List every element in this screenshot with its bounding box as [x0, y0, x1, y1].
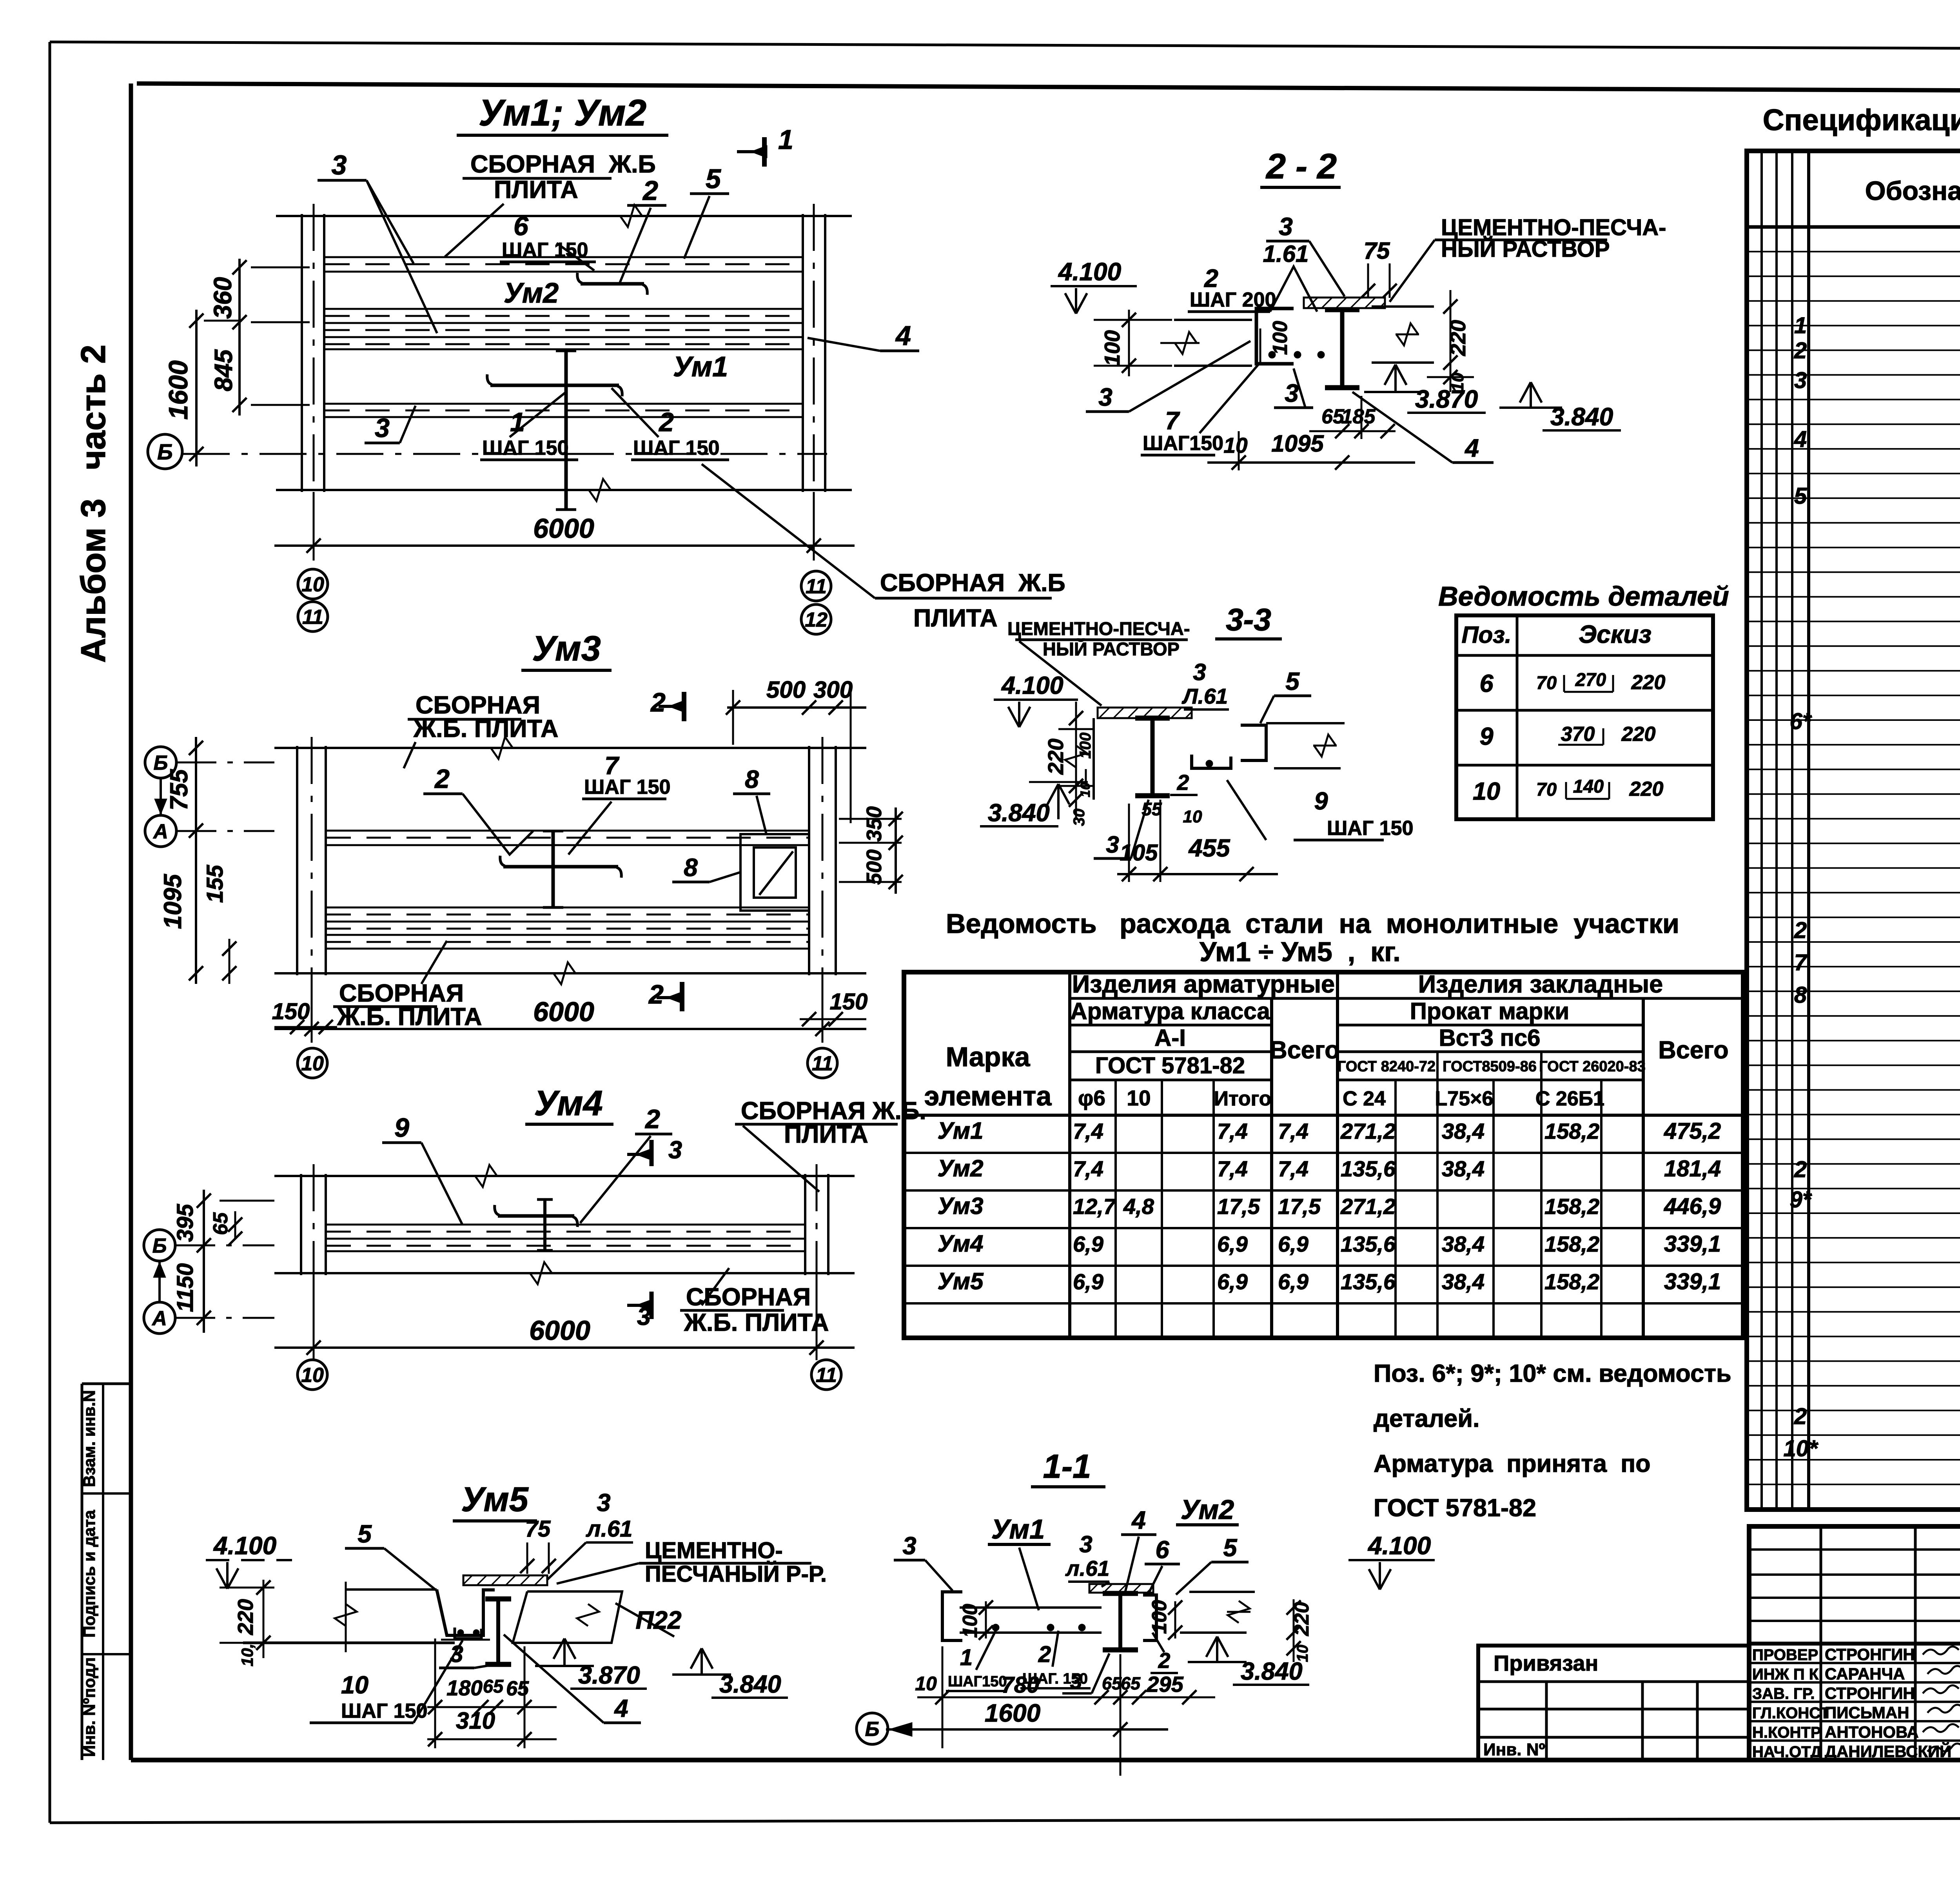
svg-text:6,9: 6,9 — [1217, 1232, 1248, 1256]
Um4 dims 395 65 1150 — [203, 1190, 205, 1333]
svg-text:220: 220 — [1621, 723, 1656, 746]
svg-text:Б: Б — [865, 1718, 880, 1741]
svg-text:4: 4 — [1794, 426, 1807, 452]
title block upper small rows — [1749, 1548, 1960, 1551]
svg-text:3: 3 — [1794, 368, 1807, 393]
svg-text:65: 65 — [506, 1677, 529, 1700]
svg-text:1150: 1150 — [172, 1263, 198, 1312]
svg-text:9: 9 — [1314, 788, 1328, 815]
svg-text:755: 755 — [165, 769, 193, 810]
svg-text:10*: 10* — [1783, 1436, 1818, 1461]
steel table verticals — [1068, 972, 1071, 1338]
svg-text:8: 8 — [1794, 982, 1807, 1008]
svg-text:4.100: 4.100 — [1367, 1531, 1431, 1560]
title block verticals — [1820, 1526, 1822, 1760]
Um4 dim 6000 — [313, 1275, 315, 1360]
Um1-Um2 left wall — [301, 214, 303, 492]
svg-text:350: 350 — [862, 806, 886, 842]
svg-text:Арматура класса: Арматура класса — [1070, 998, 1270, 1024]
svg-text:7,4: 7,4 — [1217, 1156, 1248, 1181]
svg-text:Ведомость деталей: Ведомость деталей — [1438, 581, 1729, 611]
svg-text:4: 4 — [895, 320, 911, 351]
Um5 elevation 3.870 — [563, 1639, 566, 1666]
svg-text:3.870: 3.870 — [1415, 385, 1478, 413]
1-1 dim 100 left — [985, 1601, 987, 1639]
svg-text:11: 11 — [812, 1052, 833, 1075]
3-3 rebar parts small — [1192, 755, 1231, 768]
svg-text:17,5: 17,5 — [1278, 1194, 1321, 1219]
svg-text:2 - 2: 2 - 2 — [1265, 147, 1337, 186]
Um1-Um2 rebar band lower — [325, 403, 802, 405]
main drawing frame — [137, 83, 1960, 93]
svg-text:7,4: 7,4 — [1278, 1156, 1308, 1181]
steel table sub verticals — [1114, 1080, 1117, 1338]
svg-text:150: 150 — [830, 989, 868, 1014]
svg-text:Ум4: Ум4 — [534, 1084, 603, 1123]
svg-text:ШАГ150: ШАГ150 — [1143, 432, 1223, 455]
grid axis B line — [183, 453, 827, 455]
Um4 grid circle 10 — [298, 1360, 327, 1390]
svg-text:НАЧ.ОТД: НАЧ.ОТД — [1752, 1744, 1822, 1761]
svg-text:3.840: 3.840 — [1550, 403, 1613, 431]
svg-text:38,4: 38,4 — [1442, 1232, 1485, 1256]
spec table narrow columns — [1760, 151, 1763, 1510]
svg-text:9*: 9* — [1790, 1187, 1812, 1212]
Um3 grid B circle — [145, 747, 176, 778]
svg-text:158,2: 158,2 — [1544, 1194, 1599, 1219]
spec table header — [1747, 225, 1960, 229]
svg-text:Ум4: Ум4 — [938, 1230, 984, 1257]
svg-text:181,4: 181,4 — [1664, 1156, 1721, 1181]
svg-text:5: 5 — [1285, 667, 1300, 695]
svg-text:500: 500 — [766, 677, 806, 703]
svg-text:ПИСЬМАН: ПИСЬМАН — [1825, 1704, 1909, 1722]
2-2 I-beam — [1340, 310, 1345, 388]
Um3 rebar band lower — [327, 907, 808, 909]
grid axis B circle left — [148, 434, 182, 469]
svg-text:Б: Б — [152, 1235, 167, 1257]
svg-text:30: 30 — [1071, 809, 1088, 826]
svg-text:ГОСТ 5781-82: ГОСТ 5781-82 — [1374, 1494, 1536, 1522]
svg-text:8: 8 — [684, 853, 698, 882]
svg-text:10: 10 — [301, 1364, 324, 1387]
svg-text:деталей.: деталей. — [1374, 1405, 1480, 1432]
svg-text:СБОРНАЯ: СБОРНАЯ — [686, 1283, 811, 1311]
svg-text:Ум1 ÷ Ум5 , кг.: Ум1 ÷ Ум5 , кг. — [1200, 936, 1401, 967]
svg-text:4,8: 4,8 — [1123, 1194, 1154, 1219]
svg-text:Ум3: Ум3 — [532, 629, 601, 668]
svg-text:70: 70 — [1536, 779, 1557, 800]
Um4 right wall — [804, 1174, 806, 1275]
svg-text:6000: 6000 — [533, 996, 594, 1027]
svg-text:158,2: 158,2 — [1544, 1269, 1599, 1294]
Um4 grid B circle — [144, 1230, 175, 1261]
sheet outer border — [50, 42, 1960, 50]
svg-text:ИНЖ П К: ИНЖ П К — [1752, 1666, 1819, 1683]
2-2 dim 220 right — [1450, 290, 1452, 392]
section mark 1 top — [762, 137, 767, 167]
dim 1600 vertical line — [195, 310, 198, 466]
svg-text:10: 10 — [1078, 782, 1093, 797]
svg-text:10: 10 — [1183, 807, 1202, 826]
Um1-Um2 rebar band middle — [325, 308, 802, 310]
svg-text:ГОСТ 26020-83: ГОСТ 26020-83 — [1539, 1058, 1645, 1075]
svg-text:3.870: 3.870 — [578, 1662, 640, 1689]
Um5 slab break mark — [345, 1582, 347, 1652]
svg-text:Альбом 3 часть 2: Альбом 3 часть 2 — [74, 345, 113, 663]
svg-text:А: А — [152, 820, 168, 843]
svg-text:1: 1 — [510, 407, 525, 437]
svg-text:П22: П22 — [635, 1606, 681, 1634]
svg-text:Ум5: Ум5 — [461, 1480, 529, 1519]
3-3 right channel — [1241, 725, 1266, 760]
svg-text:8: 8 — [745, 765, 759, 793]
svg-text:2: 2 — [644, 1104, 660, 1134]
svg-text:220: 220 — [1631, 671, 1666, 694]
svg-text:ШАГ 150: ШАГ 150 — [1327, 817, 1414, 840]
3-3 elevation 3.840 note mark — [1085, 769, 1087, 782]
Um4 rebar vertical bar — [543, 1199, 546, 1250]
svg-text:Всего: Всего — [1269, 1036, 1339, 1064]
svg-text:4: 4 — [613, 1695, 628, 1722]
Um5 elevation 3.840 — [701, 1648, 703, 1675]
1-1 dim 220 right — [1293, 1599, 1295, 1662]
1-1 hatch strip — [1089, 1584, 1153, 1593]
svg-text:л.61: л.61 — [586, 1516, 633, 1542]
svg-text:1600: 1600 — [985, 1699, 1040, 1727]
svg-text:12,7: 12,7 — [1073, 1194, 1117, 1219]
svg-text:140: 140 — [1573, 776, 1604, 797]
svg-text:9: 9 — [394, 1113, 409, 1143]
Um1-Um2 slab bottom edge — [276, 489, 852, 491]
svg-text:2: 2 — [1038, 1642, 1051, 1667]
Um3 right wall — [808, 746, 810, 975]
2-2 dim 100 left — [1128, 310, 1130, 376]
svg-text:Н.КОНТР: Н.КОНТР — [1752, 1724, 1821, 1741]
svg-text:2: 2 — [1794, 1157, 1807, 1182]
svg-text:ПЛИТА: ПЛИТА — [494, 176, 578, 203]
svg-text:ШАГ 150: ШАГ 150 — [482, 437, 569, 459]
left margin stamp column boxes — [82, 1383, 131, 1385]
svg-text:10: 10 — [341, 1671, 368, 1699]
svg-text:3: 3 — [902, 1532, 916, 1560]
svg-text:ГОСТ 8240-72: ГОСТ 8240-72 — [1338, 1058, 1436, 1075]
svg-text:Марка: Марка — [946, 1042, 1031, 1072]
svg-text:Подпись и дата: Подпись и дата — [80, 1510, 98, 1638]
svg-text:1: 1 — [778, 124, 793, 155]
svg-text:ЦЕМЕНТНО-: ЦЕМЕНТНО- — [645, 1538, 783, 1563]
svg-text:Поз. 6*; 9*; 10* см. ведомость: Поз. 6*; 9*; 10* см. ведомость — [1374, 1360, 1731, 1387]
Um3 opening right — [740, 834, 809, 911]
svg-text:2: 2 — [1177, 770, 1189, 795]
grid circle 10 left — [298, 569, 328, 599]
svg-text:6,9: 6,9 — [1073, 1232, 1103, 1256]
svg-text:Вст3 пс6: Вст3 пс6 — [1439, 1025, 1540, 1051]
svg-text:3: 3 — [1079, 1531, 1092, 1557]
svg-text:65: 65 — [483, 1676, 504, 1697]
svg-text:180: 180 — [446, 1676, 483, 1700]
svg-text:Итого: Итого — [1214, 1087, 1272, 1110]
svg-text:7,4: 7,4 — [1278, 1119, 1308, 1143]
svg-text:С 24: С 24 — [1343, 1087, 1386, 1110]
title block outer — [1749, 1526, 1960, 1760]
svg-text:3: 3 — [1106, 831, 1119, 858]
svg-text:11: 11 — [302, 606, 323, 629]
Um5 channel small — [455, 1628, 481, 1639]
svg-text:6000: 6000 — [533, 513, 594, 544]
svg-text:70: 70 — [1536, 672, 1557, 693]
svg-text:395: 395 — [172, 1204, 198, 1242]
svg-text:ШАГ150: ШАГ150 — [948, 1673, 1007, 1690]
svg-text:6,9: 6,9 — [1073, 1269, 1103, 1294]
svg-text:845: 845 — [209, 349, 238, 391]
svg-text:10: 10 — [1223, 433, 1248, 457]
2-2 cement strip hatched — [1304, 298, 1385, 308]
svg-text:7,4: 7,4 — [1217, 1119, 1248, 1143]
svg-text:Ум5: Ум5 — [938, 1268, 984, 1294]
svg-text:Б: Б — [157, 439, 173, 464]
svg-text:17,5: 17,5 — [1217, 1194, 1260, 1219]
svg-text:65: 65 — [1102, 1673, 1122, 1693]
svg-text:5: 5 — [706, 163, 721, 194]
svg-text:ПРОВЕР: ПРОВЕР — [1752, 1646, 1818, 1664]
svg-text:339,1: 339,1 — [1664, 1269, 1721, 1294]
svg-text:Поз.: Поз. — [1461, 622, 1511, 648]
svg-text:ГОСТ 5781-82: ГОСТ 5781-82 — [1095, 1053, 1245, 1078]
svg-text:Ум1: Ум1 — [673, 351, 728, 383]
svg-text:7: 7 — [1165, 406, 1180, 435]
svg-text:370: 370 — [1561, 723, 1595, 746]
svg-text:155: 155 — [202, 865, 228, 903]
svg-text:4.100: 4.100 — [213, 1531, 276, 1560]
svg-text:4.100: 4.100 — [1001, 672, 1063, 699]
3-3 I-beam — [1151, 718, 1155, 796]
svg-text:САРАНЧА: САРАНЧА — [1825, 1665, 1905, 1683]
svg-text:135,6: 135,6 — [1341, 1156, 1396, 1181]
svg-text:1: 1 — [960, 1645, 973, 1670]
Um5 trough — [437, 1590, 495, 1635]
svg-text:Ум2: Ум2 — [1181, 1494, 1234, 1525]
svg-text:ЗАВ. ГР.: ЗАВ. ГР. — [1752, 1685, 1815, 1702]
svg-text:100: 100 — [1100, 330, 1124, 366]
svg-text:475,2: 475,2 — [1664, 1118, 1721, 1144]
svg-text:220: 220 — [1446, 320, 1470, 356]
svg-text:2: 2 — [642, 175, 658, 206]
svg-text:310: 310 — [456, 1707, 495, 1734]
svg-text:135,6: 135,6 — [1341, 1232, 1396, 1256]
svg-text:Ум3: Ум3 — [938, 1193, 984, 1219]
svg-text:СТРОНГИН: СТРОНГИН — [1825, 1645, 1915, 1664]
svg-text:6: 6 — [514, 211, 529, 241]
svg-text:455: 455 — [1188, 835, 1230, 862]
vedomost detaley table — [1456, 615, 1713, 819]
rebar hook bar top — [581, 282, 644, 286]
svg-text:3: 3 — [332, 150, 347, 180]
svg-text:Ведомость расхода стали на: Ведомость расхода стали на монолитные уч… — [946, 908, 1679, 939]
svg-text:Ум2: Ум2 — [938, 1155, 984, 1181]
svg-text:2: 2 — [1794, 338, 1807, 363]
title block signatures squiggles — [1923, 1646, 1959, 1655]
svg-text:Ум1: Ум1 — [938, 1118, 984, 1144]
svg-text:10: 10 — [1473, 778, 1500, 805]
svg-text:4: 4 — [1131, 1506, 1146, 1534]
svg-text:500: 500 — [862, 849, 886, 885]
3-3 dims left 220 100 10 30 — [1075, 702, 1077, 819]
svg-text:2: 2 — [1794, 918, 1807, 943]
svg-text:9: 9 — [1479, 723, 1493, 750]
svg-text:1600: 1600 — [163, 360, 193, 419]
svg-text:φ6: φ6 — [1078, 1086, 1105, 1110]
svg-text:3: 3 — [597, 1489, 610, 1517]
Um1-Um2 rebar band upper — [325, 256, 802, 258]
2-2 channel — [1256, 308, 1294, 364]
spec table outer — [1747, 151, 1960, 1510]
svg-text:105: 105 — [1120, 840, 1158, 866]
Um4 grid A circle — [144, 1302, 175, 1334]
svg-text:2: 2 — [650, 688, 666, 717]
steel table header lines — [1070, 997, 1743, 1000]
Um3 grid A circle — [145, 815, 176, 847]
svg-text:3: 3 — [1285, 379, 1299, 407]
steel table row lines — [904, 1152, 1743, 1154]
Um3 left wall — [296, 746, 298, 975]
svg-text:10: 10 — [301, 573, 324, 596]
Um4 slab bottom edge — [274, 1272, 855, 1274]
svg-text:4: 4 — [1464, 434, 1479, 462]
svg-text:10,: 10, — [238, 1644, 256, 1666]
svg-text:СТРОНГИН: СТРОНГИН — [1825, 1684, 1915, 1702]
svg-text:100: 100 — [959, 1604, 982, 1638]
svg-text:Арматура принята по: Арматура принята по — [1374, 1450, 1651, 1477]
svg-text:11: 11 — [806, 575, 827, 598]
svg-text:Ж.Б. ПЛИТА: Ж.Б. ПЛИТА — [684, 1309, 829, 1336]
svg-text:СБОРНАЯ Ж.Б: СБОРНАЯ Ж.Б — [880, 569, 1065, 597]
grid circle 12 right below — [801, 604, 831, 634]
svg-text:185: 185 — [1341, 405, 1376, 428]
svg-text:6*: 6* — [1790, 709, 1812, 734]
svg-text:300: 300 — [813, 677, 853, 703]
svg-text:L75×6: L75×6 — [1435, 1087, 1494, 1110]
1-1 left channel — [942, 1592, 962, 1640]
svg-text:1-1: 1-1 — [1043, 1448, 1091, 1485]
Um5 cement strip hatched — [463, 1575, 547, 1585]
svg-text:3: 3 — [668, 1136, 682, 1164]
svg-text:3: 3 — [1193, 659, 1206, 685]
svg-text:А-I: А-I — [1154, 1025, 1186, 1051]
svg-text:Ум1; Ум2: Ум1; Ум2 — [479, 92, 646, 134]
3-3 right slab — [1266, 722, 1345, 724]
svg-text:10: 10 — [1127, 1086, 1151, 1110]
Um3 grid circle 11 — [808, 1048, 837, 1078]
grid circle 11 right — [801, 571, 831, 601]
svg-text:ШАГ 150: ШАГ 150 — [633, 437, 720, 459]
svg-text:100: 100 — [1148, 1600, 1171, 1634]
svg-text:2: 2 — [648, 980, 664, 1009]
svg-text:158,2: 158,2 — [1544, 1232, 1599, 1256]
Um5 left slab — [345, 1588, 437, 1591]
Um4 rebar hook bar — [498, 1214, 574, 1218]
2-2 right slab — [1372, 305, 1434, 308]
1-1 grid B circle — [857, 1713, 888, 1744]
svg-text:Инв. Nºподл: Инв. Nºподл — [80, 1657, 98, 1757]
dim 6000 bottom — [313, 492, 315, 561]
svg-text:ПЛИТА: ПЛИТА — [913, 604, 998, 632]
svg-text:Обозначение: Обозначение — [1865, 176, 1960, 206]
svg-text:7: 7 — [1794, 950, 1808, 975]
svg-text:220: 220 — [1044, 739, 1068, 775]
svg-text:220: 220 — [1290, 1602, 1313, 1637]
svg-text:75: 75 — [525, 1516, 551, 1542]
svg-text:ШАГ 150: ШАГ 150 — [502, 239, 588, 261]
svg-text:339,1: 339,1 — [1664, 1231, 1721, 1257]
svg-text:6,9: 6,9 — [1278, 1232, 1308, 1256]
svg-text:2: 2 — [434, 764, 450, 794]
svg-text:1: 1 — [1794, 313, 1807, 338]
3-3 left slab edge — [1093, 718, 1095, 800]
svg-text:л.61: л.61 — [1065, 1556, 1110, 1580]
svg-text:Изделия арматурные: Изделия арматурные — [1072, 971, 1335, 998]
svg-text:5: 5 — [1794, 483, 1807, 509]
2-2 elevation 3.870 — [1394, 365, 1397, 392]
svg-text:10: 10 — [915, 1673, 937, 1695]
Um4 left wall — [300, 1174, 302, 1275]
svg-text:12: 12 — [805, 609, 828, 631]
svg-text:55: 55 — [1142, 799, 1162, 819]
Um3 dim 6000 — [311, 976, 313, 1043]
Um3 dim 350 500 right — [895, 807, 897, 894]
svg-text:ПЕСЧАНЫЙ Р-Р.: ПЕСЧАНЫЙ Р-Р. — [645, 1561, 827, 1587]
svg-text:7,4: 7,4 — [1073, 1119, 1103, 1143]
svg-text:6: 6 — [1155, 1536, 1169, 1564]
svg-text:3.840: 3.840 — [719, 1671, 781, 1698]
3-3 cement strip hatched — [1098, 708, 1192, 718]
svg-text:3: 3 — [1098, 383, 1112, 411]
1-1 left slab — [960, 1606, 1102, 1609]
svg-text:НЫЙ РАСТВОР: НЫЙ РАСТВОР — [1043, 639, 1180, 659]
svg-text:ДАНИЛЕВСКИЙ: ДАНИЛЕВСКИЙ — [1825, 1742, 1951, 1761]
svg-text:3: 3 — [1279, 212, 1293, 241]
svg-text:10: 10 — [301, 1052, 324, 1075]
svg-text:271,2: 271,2 — [1340, 1119, 1396, 1143]
svg-text:271,2: 271,2 — [1340, 1194, 1396, 1219]
svg-text:3.840: 3.840 — [1241, 1658, 1303, 1685]
rebar vertical bar — [564, 351, 568, 510]
Um1-Um2 slab top edge — [276, 215, 852, 217]
svg-text:100: 100 — [1077, 733, 1094, 759]
1-1 right channel — [1143, 1595, 1156, 1640]
svg-text:Ум1: Ум1 — [991, 1514, 1045, 1544]
svg-text:5: 5 — [1223, 1534, 1237, 1562]
svg-text:элемента: элемента — [924, 1081, 1052, 1111]
svg-text:Спецификация к монолитным у: Спецификация к монолитным участкам Ум1÷У… — [1763, 103, 1960, 137]
svg-text:295: 295 — [1146, 1672, 1183, 1697]
svg-text:6: 6 — [1479, 670, 1494, 697]
svg-text:Л.61: Л.61 — [1181, 684, 1228, 708]
svg-text:38,4: 38,4 — [1442, 1119, 1485, 1143]
svg-text:3.840: 3.840 — [988, 799, 1050, 827]
svg-text:Прокат марки: Прокат марки — [1410, 998, 1569, 1024]
svg-text:6,9: 6,9 — [1217, 1269, 1248, 1294]
svg-text:38,4: 38,4 — [1442, 1156, 1485, 1181]
svg-text:360: 360 — [209, 277, 237, 319]
title block privyazan box — [1478, 1646, 1749, 1760]
svg-text:4.100: 4.100 — [1058, 258, 1121, 286]
Um5 dim 220 10 — [263, 1580, 265, 1658]
1-1 elevation 3.840 — [1216, 1637, 1218, 1662]
svg-text:ГЛ.КОНСТ: ГЛ.КОНСТ — [1752, 1705, 1830, 1722]
svg-text:АНТОНОВА: АНТОНОВА — [1825, 1723, 1919, 1741]
svg-text:Всего: Всего — [1658, 1036, 1728, 1064]
